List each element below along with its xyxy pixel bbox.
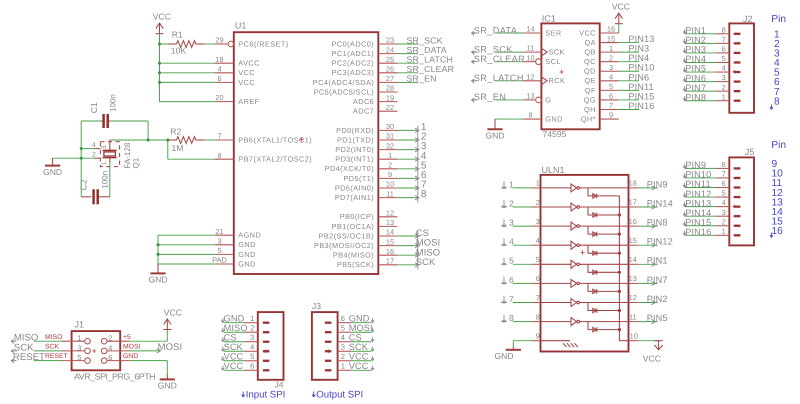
- svg-text:PIN9: PIN9: [647, 179, 668, 189]
- J1 pin 5: [62, 360, 85, 362]
- svg-text:SCL: SCL: [545, 57, 561, 66]
- svg-text:13: 13: [526, 92, 534, 101]
- wire net VCC J3: [351, 360, 371, 362]
- svg-text:QB: QB: [584, 48, 595, 57]
- U1 pin 5 GND: [215, 253, 234, 255]
- U1 pin 27 PC4(ADC4/SDA): [378, 81, 397, 83]
- svg-text:PIN3: PIN3: [628, 44, 649, 54]
- svg-text:MISO: MISO: [45, 334, 62, 341]
- svg-text:CS: CS: [224, 333, 237, 343]
- J1 origin cross: [92, 349, 96, 353]
- capacitor C1: [81, 120, 101, 122]
- wire net 4: [397, 158, 417, 160]
- svg-text:Output SPI: Output SPI: [316, 390, 363, 401]
- wire VCC rail: [159, 34, 161, 102]
- svg-text:6: 6: [722, 179, 726, 188]
- U1 pin PAD GND: [215, 263, 234, 265]
- J4 origin cross: [264, 349, 268, 353]
- svg-text:5: 5: [609, 82, 613, 91]
- svg-text:PIN15: PIN15: [628, 91, 654, 101]
- svg-text:GND: GND: [158, 381, 177, 391]
- J1 pin 2: [107, 340, 130, 342]
- wire net 2: [397, 139, 417, 141]
- svg-text:PC0(ADC0): PC0(ADC0): [332, 39, 375, 48]
- svg-text:PC3(ADC3): PC3(ADC3): [332, 68, 375, 77]
- ground symbol ULN1: [512, 346, 514, 349]
- svg-text:2: 2: [509, 198, 514, 208]
- U1 pin 12 PB0(ICP): [378, 216, 397, 218]
- wire net GND J3: [351, 322, 371, 324]
- U1 pin 30 PD0(RXD): [378, 129, 397, 131]
- junction: [158, 71, 161, 74]
- svg-text:12: 12: [629, 293, 637, 302]
- svg-text:VCC: VCC: [238, 78, 255, 87]
- svg-text:9: 9: [388, 170, 392, 179]
- svg-text:8: 8: [722, 25, 726, 34]
- svg-text:7: 7: [217, 132, 221, 141]
- svg-text:16: 16: [386, 247, 394, 256]
- svg-text:3: 3: [77, 343, 81, 352]
- svg-text:2: 2: [108, 334, 112, 343]
- svg-text:VCC: VCC: [164, 308, 182, 318]
- ULN1 diode stage 4: [588, 245, 619, 253]
- wire net PIN16: [619, 108, 639, 110]
- svg-text:PIN14: PIN14: [685, 208, 711, 218]
- svg-text:11: 11: [527, 44, 535, 53]
- J3 pin 6: [325, 322, 332, 324]
- svg-text:2: 2: [250, 323, 254, 332]
- J4 pin 2: [263, 331, 270, 333]
- wire GND branch: [158, 263, 215, 265]
- svg-text:PD2(INT0): PD2(INT0): [335, 145, 374, 154]
- J2 pin 6: [734, 52, 741, 54]
- svg-text:4: 4: [536, 236, 540, 245]
- wire net RESET: [34, 360, 62, 362]
- ULN1 driver stage 8: [541, 321, 572, 323]
- ULN1 diode stage 2: [588, 207, 619, 215]
- svg-text:24: 24: [386, 45, 394, 54]
- crystal pin 4 lead: [94, 148, 100, 150]
- wire net PIN13: [619, 42, 639, 44]
- svg-text:3: 3: [250, 333, 254, 342]
- J1 pin 4: [107, 350, 130, 352]
- U1 pin 8 PB7(XTAL2/TOSC2): [215, 158, 234, 160]
- wire net MOSI: [397, 245, 417, 247]
- junction on COM rail: [618, 290, 621, 293]
- wire net 6: [397, 177, 417, 179]
- U1 pin 3 GND: [215, 244, 234, 246]
- svg-text:SR_DATA: SR_DATA: [474, 25, 518, 35]
- svg-text:22: 22: [386, 103, 394, 112]
- connector J2 box: [729, 23, 754, 112]
- svg-text:14: 14: [526, 25, 534, 34]
- ULN1 output pin 12: [629, 302, 639, 304]
- wire net PIN12: [638, 244, 658, 246]
- ULN1 pin 9 GND: [532, 340, 541, 342]
- wire net GND J4: [224, 322, 244, 324]
- ULN1 driver stage 3: [541, 225, 572, 227]
- junction: [158, 81, 161, 84]
- svg-text:QG: QG: [584, 95, 596, 104]
- svg-text:J3: J3: [312, 301, 321, 311]
- svg-text:GND: GND: [238, 240, 256, 249]
- J3 origin cross: [326, 349, 330, 353]
- svg-text:RESET: RESET: [45, 353, 68, 360]
- svg-text:PC5(ADC5/SCL): PC5(ADC5/SCL): [314, 87, 375, 96]
- svg-text:2: 2: [92, 152, 96, 159]
- wire net PIN3: [685, 52, 715, 54]
- wire net PIN1: [685, 33, 715, 35]
- junction: [158, 62, 161, 65]
- wire GND branch: [158, 234, 215, 236]
- svg-text:J5: J5: [745, 147, 755, 157]
- svg-text:6: 6: [509, 275, 514, 285]
- J1 pin 3: [62, 350, 85, 352]
- J2 pin 7: [734, 42, 741, 44]
- wire net MISO: [34, 340, 62, 342]
- supply VCC top-left: [156, 33, 164, 35]
- ULN1 input pin 1: [532, 187, 541, 189]
- svg-text:4: 4: [341, 333, 345, 342]
- wire net VCC J4: [224, 369, 244, 371]
- svg-text:PB4(MISO): PB4(MISO): [333, 251, 374, 260]
- svg-text:J4: J4: [275, 379, 284, 389]
- svg-text:6: 6: [341, 314, 345, 323]
- svg-text:Input SPI: Input SPI: [246, 390, 285, 401]
- svg-text:3: 3: [722, 208, 726, 217]
- ULN1 driver stage 1: [541, 187, 572, 189]
- ULN1 COM rail: [618, 196, 620, 341]
- wire net 7 input: [513, 302, 532, 304]
- wire net VCC from J1 pin2: [130, 340, 168, 342]
- svg-text:1: 1: [509, 179, 514, 189]
- svg-text:PIN10: PIN10: [628, 63, 654, 73]
- svg-text:ADC7: ADC7: [353, 107, 374, 116]
- svg-text:6: 6: [609, 92, 613, 101]
- wire net 3 input: [513, 225, 532, 227]
- svg-text:17: 17: [386, 257, 394, 266]
- svg-text:1: 1: [722, 92, 726, 101]
- net label MOSI: [417, 241, 419, 251]
- svg-text:U1: U1: [235, 21, 247, 31]
- ULN1 diode stage 3: [588, 226, 619, 234]
- wire net MISO: [397, 254, 417, 256]
- svg-text:PIN4: PIN4: [685, 54, 706, 64]
- wire XTAL2 vertical to pin8 row: [167, 140, 169, 159]
- svg-text:PIN16: PIN16: [685, 227, 711, 237]
- svg-text:15: 15: [629, 236, 637, 245]
- J4 pin 3: [263, 341, 270, 343]
- svg-text:10: 10: [386, 180, 394, 189]
- J1 pin 1: [62, 340, 85, 342]
- svg-text:PIN10: PIN10: [685, 170, 711, 180]
- svg-text:MOSI: MOSI: [123, 344, 140, 351]
- svg-text:5: 5: [77, 353, 81, 362]
- wire net 5: [397, 168, 417, 170]
- svg-text:GND: GND: [238, 259, 256, 268]
- wire net PIN9: [685, 167, 715, 169]
- wire net PIN10: [619, 70, 639, 72]
- wire net PIN10: [685, 177, 715, 179]
- U1 pin 2 PD4(XCK/T0): [378, 168, 397, 170]
- connector J1 box: [72, 331, 121, 370]
- svg-text:3: 3: [101, 145, 108, 149]
- wire net 8 input: [513, 321, 532, 323]
- J2 pin 5: [734, 61, 741, 63]
- svg-text:PIN6: PIN6: [628, 72, 649, 82]
- wire net PIN7: [685, 90, 715, 92]
- svg-text:30: 30: [386, 122, 394, 131]
- svg-text:ADC6: ADC6: [353, 97, 374, 106]
- svg-text:16: 16: [629, 217, 637, 226]
- svg-text:25: 25: [386, 55, 394, 64]
- svg-text:7: 7: [509, 294, 514, 304]
- IC1 pin 8 GND: [523, 118, 541, 120]
- svg-text:PIN2: PIN2: [647, 294, 668, 304]
- wire net PIN16: [685, 234, 715, 236]
- J5 pin 7: [734, 177, 741, 179]
- wire GND IC1: [495, 118, 523, 120]
- net label MISO: [417, 250, 419, 260]
- wire VCC branch: [160, 72, 215, 74]
- svg-text:19: 19: [386, 93, 394, 102]
- ULN1 diode stage 1: [588, 188, 619, 196]
- svg-text:PIN5: PIN5: [685, 64, 706, 74]
- wire net PIN4: [685, 61, 715, 63]
- wire net MOSI J3: [351, 331, 371, 333]
- wire net PIN3: [619, 51, 639, 53]
- svg-text:7: 7: [536, 293, 540, 302]
- junction on COM rail: [618, 309, 621, 312]
- svg-text:GND: GND: [485, 131, 504, 141]
- U1 pin 23 PC0(ADC0): [378, 43, 397, 45]
- svg-text:SCK: SCK: [45, 344, 59, 351]
- svg-text:5: 5: [722, 189, 726, 198]
- supply VCC at J1: [163, 329, 171, 331]
- svg-text:MISO: MISO: [224, 323, 248, 333]
- junction on COM rail: [618, 233, 621, 236]
- connector J4 box: [258, 312, 284, 380]
- svg-text:29: 29: [215, 36, 223, 45]
- U1 pin 9 PD5(T1): [378, 177, 397, 179]
- U1 pin 4 VCC: [215, 72, 234, 74]
- svg-text:RESET: RESET: [13, 352, 45, 363]
- wire net PIN12: [685, 196, 715, 198]
- svg-text:Pin: Pin: [771, 14, 786, 25]
- wire net PIN2: [638, 302, 658, 304]
- IC1 pin 9 QH*: [600, 118, 619, 120]
- J1 pin 6: [107, 360, 130, 362]
- ULN1 diode stage 6: [588, 283, 619, 291]
- wire net VCC J3: [351, 369, 371, 371]
- svg-text:PIN5: PIN5: [647, 313, 668, 323]
- svg-text:RCK: RCK: [549, 76, 566, 85]
- wire net SR_CLEAR: [397, 72, 418, 74]
- svg-text:VCC: VCC: [224, 361, 244, 371]
- svg-text:C2: C2: [79, 179, 89, 190]
- U1 pin 29 PC6(/RESET): [215, 43, 228, 45]
- wire net CS: [397, 235, 417, 237]
- svg-text:SR_EN: SR_EN: [407, 74, 437, 84]
- svg-text:MOSI: MOSI: [349, 323, 373, 333]
- svg-text:PIN8: PIN8: [647, 218, 668, 228]
- ULN1 input pin 4: [532, 244, 541, 246]
- wire net PIN8: [638, 225, 658, 227]
- svg-text:PIN12: PIN12: [685, 189, 711, 199]
- svg-text:PC2(ADC2): PC2(ADC2): [332, 59, 375, 68]
- ULN1 input pin 5: [532, 263, 541, 265]
- ULN1 diode stage 7: [588, 303, 619, 311]
- junction R2 left: [166, 139, 169, 142]
- svg-text:SR_CLEAR: SR_CLEAR: [474, 54, 525, 64]
- ULN1 output pin 18: [629, 187, 639, 189]
- ULN1 driver stage 6: [541, 282, 572, 284]
- ULN1 input pin 7: [532, 302, 541, 304]
- svg-text:PIN7: PIN7: [685, 83, 706, 93]
- wire net SCK J3: [351, 350, 371, 352]
- U1 pin 31 PD1(TXD): [378, 139, 397, 141]
- svg-text:4: 4: [722, 198, 726, 207]
- ULN1 diode stage 5: [588, 264, 619, 272]
- svg-text:GND: GND: [43, 167, 62, 177]
- svg-text:PIN13: PIN13: [685, 198, 711, 208]
- J5 pin 8: [734, 167, 741, 169]
- J4 pin 5: [263, 360, 270, 362]
- J4 pin 6: [263, 369, 270, 371]
- svg-text:GND: GND: [238, 250, 256, 259]
- svg-text:SR_LATCH: SR_LATCH: [407, 55, 454, 65]
- wire net SR_SCK: [397, 43, 418, 45]
- U1 origin cross: [299, 137, 303, 141]
- J4 pin 1: [263, 322, 270, 324]
- svg-text:1: 1: [77, 334, 81, 343]
- svg-text:9: 9: [609, 111, 613, 120]
- svg-text:PD6(AIN0): PD6(AIN0): [335, 183, 374, 192]
- svg-text:PD5(T1): PD5(T1): [343, 174, 374, 183]
- svg-text:13: 13: [629, 274, 637, 283]
- wire net GND from J1 pin6: [130, 360, 168, 362]
- svg-text:R1: R1: [172, 29, 183, 39]
- svg-text:GND: GND: [349, 314, 370, 324]
- svg-text:VCC: VCC: [579, 28, 596, 37]
- wire net SCK J4: [224, 350, 244, 352]
- svg-text:MOSI: MOSI: [158, 342, 183, 353]
- svg-text:AVCC: AVCC: [238, 59, 260, 68]
- ground symbol IC1: [494, 119, 496, 129]
- svg-text:QC: QC: [584, 57, 596, 66]
- svg-text:4: 4: [92, 142, 96, 149]
- wire net SCK: [34, 350, 62, 352]
- svg-text:7: 7: [722, 35, 726, 44]
- junction on COM rail: [618, 252, 621, 255]
- svg-text:3: 3: [536, 217, 540, 226]
- svg-text:R2: R2: [170, 126, 181, 136]
- U1 pin 13 PB1(OC1A): [378, 225, 397, 227]
- ULN1 output pin 13: [629, 282, 639, 284]
- svg-text:4: 4: [722, 64, 726, 73]
- J3 pin 5: [325, 331, 332, 333]
- U1 pin 7 PB6(XTAL1/TOSC1): [215, 139, 234, 141]
- svg-text:PIN16: PIN16: [628, 101, 654, 111]
- svg-text:PC1(ADC1): PC1(ADC1): [332, 49, 375, 58]
- svg-text:IC1: IC1: [542, 14, 556, 24]
- svg-text:8: 8: [528, 111, 532, 120]
- junction on COM rail: [618, 271, 621, 274]
- svg-text:1M: 1M: [172, 143, 184, 153]
- svg-text:VCC: VCC: [643, 353, 661, 363]
- IC1 origin cross: [560, 70, 564, 74]
- U1 pin 19 ADC6: [378, 101, 397, 103]
- svg-text:PC4(ADC4/SDA): PC4(ADC4/SDA): [313, 78, 374, 87]
- svg-text:VCC: VCC: [349, 361, 369, 371]
- ULN1 pin 10 COM: [629, 340, 639, 342]
- svg-text:PIN3: PIN3: [685, 45, 706, 55]
- wire net PIN11: [619, 89, 639, 91]
- svg-text:AREF: AREF: [238, 97, 259, 106]
- ULN1 output pin 16: [629, 225, 639, 227]
- svg-text:PIN15: PIN15: [685, 217, 711, 227]
- J3 pin 3: [325, 350, 332, 352]
- junction gnd rail: [80, 147, 83, 150]
- J3 pin 4: [325, 341, 332, 343]
- svg-text:PIN7: PIN7: [647, 275, 668, 285]
- crystal Q1 FA-128: [103, 149, 117, 151]
- svg-text:PD1(TXD): PD1(TXD): [337, 135, 374, 144]
- svg-text:1: 1: [388, 151, 392, 160]
- J4 pin 4: [263, 350, 270, 352]
- wire net 1: [397, 129, 417, 131]
- svg-text:PIN9: PIN9: [685, 160, 706, 170]
- svg-text:17: 17: [629, 198, 637, 207]
- wire net 6 input: [513, 282, 532, 284]
- svg-text:2: 2: [388, 161, 392, 170]
- J3 pin 1: [325, 369, 332, 371]
- svg-text:11: 11: [629, 312, 637, 321]
- svg-text:13: 13: [386, 218, 394, 227]
- svg-text:PIN11: PIN11: [628, 82, 653, 92]
- wire net PIN8: [685, 100, 715, 102]
- wire GND ULN1: [513, 340, 532, 342]
- J5 origin cross: [733, 205, 737, 209]
- svg-text:6: 6: [217, 74, 221, 83]
- wire crystal pin1 down: [109, 163, 111, 197]
- resistor R2: [168, 139, 177, 141]
- wire VCC branch: [160, 81, 215, 83]
- svg-text:PD7(AIN1): PD7(AIN1): [335, 193, 374, 202]
- svg-text:SR_CLEAR: SR_CLEAR: [407, 64, 455, 74]
- svg-text:PIN8: PIN8: [685, 92, 706, 102]
- resistor R1: [160, 43, 168, 45]
- svg-text:8: 8: [217, 151, 221, 160]
- IC1 pin 15 QA: [600, 42, 619, 44]
- svg-text:6: 6: [250, 362, 254, 371]
- ULN1 driver stage 7: [541, 302, 572, 304]
- svg-text:12: 12: [386, 209, 394, 218]
- svg-text:QE: QE: [584, 76, 595, 85]
- IC1 pin 1 QB: [600, 51, 619, 53]
- svg-text:Q1: Q1: [132, 157, 141, 168]
- U1 pin 6 VCC: [215, 81, 234, 83]
- svg-text:27: 27: [386, 74, 394, 83]
- connector J5 box: [729, 157, 754, 245]
- svg-text:1: 1: [609, 44, 613, 53]
- U1 pin 11 PD7(AIN1): [378, 197, 397, 199]
- svg-text:PB2(SS/OC1B): PB2(SS/OC1B): [319, 231, 375, 240]
- U1 pin 17 PB5(SCK): [378, 264, 397, 266]
- svg-text:PB1(OC1A): PB1(OC1A): [332, 222, 375, 231]
- wire VCC branch: [160, 101, 215, 103]
- svg-text:7: 7: [609, 101, 613, 110]
